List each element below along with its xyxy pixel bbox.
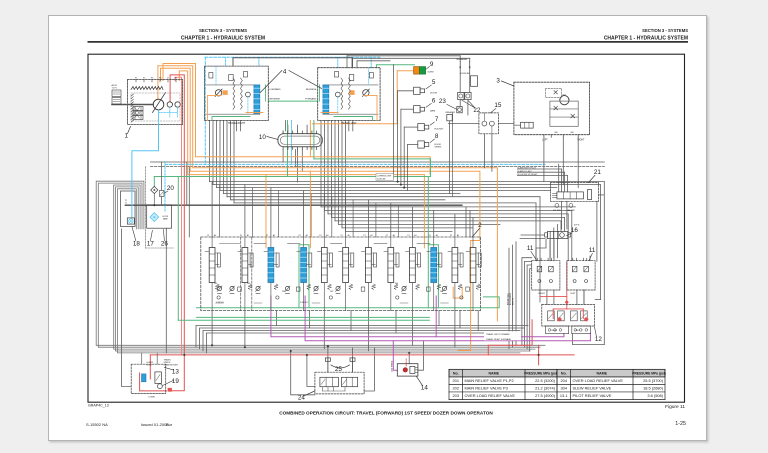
label 19 xyxy=(163,378,180,386)
svg-text:LEFT: LEFT xyxy=(571,293,577,295)
svg-text:P1: P1 xyxy=(341,235,343,237)
remote control valve 11 left xyxy=(532,258,560,295)
hose green tank line xyxy=(196,297,499,308)
svg-text:2-DEL/SE: 2-DEL/SE xyxy=(377,179,386,181)
svg-text:MAIN RELIEF VALVE P1,P2: MAIN RELIEF VALVE P1,P2 xyxy=(465,378,514,383)
svg-text:ARM: ARM xyxy=(430,110,435,113)
label 22 xyxy=(462,100,481,114)
svg-text:2-SPOOL: 2-SPOOL xyxy=(216,302,224,304)
travel motor left texts xyxy=(305,89,357,125)
hose green left riser xyxy=(177,177,179,321)
wire mid bus horizontal lines xyxy=(210,182,605,232)
valve bank port labels xyxy=(207,234,459,237)
header right xyxy=(604,28,688,41)
pilot unit 15 xyxy=(449,113,499,171)
hose red pilot bus xyxy=(150,354,574,356)
pressure table right xyxy=(557,369,665,399)
svg-text:19: 19 xyxy=(172,378,180,385)
valve bank sub components xyxy=(216,287,470,303)
svg-text:203: 203 xyxy=(330,291,333,293)
wire right risers xyxy=(573,182,605,345)
label 12 xyxy=(594,327,602,343)
valve bank relief valves xyxy=(217,286,446,293)
swivel joint 10 xyxy=(278,131,322,150)
wire drops motor boxes to bus xyxy=(210,121,346,232)
svg-text:205: 205 xyxy=(440,291,443,293)
svg-text:A1: A1 xyxy=(436,234,438,237)
breaker coupler 23 xyxy=(446,107,463,121)
valve bank tiny labels xyxy=(214,283,443,304)
svg-text:SECTION 3 - SYSTEMS: SECTION 3 - SYSTEMS xyxy=(199,28,247,33)
label 2 xyxy=(472,222,482,237)
coupler 7 bucket xyxy=(404,124,444,131)
footer page number xyxy=(675,421,686,427)
svg-text:P1: P1 xyxy=(429,235,431,237)
svg-text:2: 2 xyxy=(478,222,482,229)
wire drops bus to valve bank xyxy=(212,182,473,237)
hose purple travel pilot 1 xyxy=(271,296,564,337)
svg-text:FORWARD: FORWARD xyxy=(270,88,282,91)
label 11 left xyxy=(527,245,537,261)
hose green swivel drops xyxy=(288,121,314,177)
quick couplers 22 xyxy=(458,92,471,99)
hose orange pump P3 line xyxy=(179,71,424,248)
label 4 xyxy=(260,69,321,93)
label 25 xyxy=(335,366,343,373)
graphic id xyxy=(88,404,109,408)
hose green pilot return bus xyxy=(154,177,429,187)
label 20 xyxy=(164,185,175,194)
travel motor left 4 xyxy=(318,68,380,121)
hose purple branch xyxy=(393,296,436,370)
svg-text:P2: P2 xyxy=(143,78,145,80)
wire bank return band xyxy=(196,296,528,353)
svg-text:1: 1 xyxy=(125,133,129,140)
wire swivel joint links xyxy=(237,121,353,183)
valve bank spools xyxy=(205,237,481,311)
caption xyxy=(279,411,493,416)
svg-text:6: 6 xyxy=(432,97,436,104)
pressure table left xyxy=(449,369,557,399)
svg-text:P1: P1 xyxy=(450,235,452,237)
hose cyan drain line xyxy=(132,125,159,218)
hose green bottom bus xyxy=(178,319,429,321)
svg-text:Figure 11: Figure 11 xyxy=(665,404,685,410)
wire pilot unit links xyxy=(122,353,158,387)
svg-text:TRAVEL RIGHT FORWARD: TRAVEL RIGHT FORWARD xyxy=(486,338,512,341)
figure label xyxy=(665,404,685,410)
hose orange travel bus xyxy=(163,64,430,175)
label 17 xyxy=(147,230,155,247)
svg-text:LOCK: LOCK xyxy=(147,364,153,366)
svg-text:FORWARD: FORWARD xyxy=(305,98,317,101)
pedal symbols 25 xyxy=(325,358,355,372)
label 15 xyxy=(490,102,502,113)
svg-text:NAME: NAME xyxy=(596,371,607,375)
svg-text:9: 9 xyxy=(430,61,434,68)
svg-text:11: 11 xyxy=(527,245,534,252)
svg-text:A1: A1 xyxy=(175,77,177,80)
hose orange pump P2 line xyxy=(161,68,480,350)
svg-text:T1: T1 xyxy=(125,202,128,204)
label 13 xyxy=(164,367,179,375)
svg-text:2-SPEED/CONF: 2-SPEED/CONF xyxy=(377,176,392,178)
svg-text:8: 8 xyxy=(435,133,439,140)
svg-text:2ND SPD: 2ND SPD xyxy=(567,210,576,212)
travel pilot 12 red internals xyxy=(553,301,588,321)
svg-text:A1: A1 xyxy=(348,234,350,237)
svg-text:P1: P1 xyxy=(240,235,242,237)
svg-text:P1: P1 xyxy=(207,235,209,237)
label 23 xyxy=(439,98,457,109)
label 10 xyxy=(259,134,278,141)
slew unit texts xyxy=(542,95,585,142)
wire slew unit drops xyxy=(498,124,578,188)
breaker arrows top xyxy=(457,58,478,86)
solenoid block 21 xyxy=(550,183,598,212)
svg-text:12: 12 xyxy=(595,336,603,343)
svg-text:25.5 (3700): 25.5 (3700) xyxy=(643,378,664,383)
svg-text:LEFT: LEFT xyxy=(542,140,548,142)
svg-text:203: 203 xyxy=(247,283,250,285)
travel pilot texts xyxy=(552,330,581,332)
svg-text:P1: P1 xyxy=(266,235,268,237)
speed change valve 14 xyxy=(392,359,418,376)
svg-text:T1 P1: T1 P1 xyxy=(112,88,118,90)
svg-text:A1: A1 xyxy=(414,234,416,237)
label 16 xyxy=(566,227,578,236)
svg-text:P1: P1 xyxy=(363,235,365,237)
pump 1 internals xyxy=(112,80,180,123)
svg-text:DOWN: DOWN xyxy=(149,396,156,398)
label 8 xyxy=(430,133,439,143)
solenoid labels xyxy=(517,168,538,176)
svg-text:CHAPTER 1 - HYDRAULIC SYSTEM: CHAPTER 1 - HYDRAULIC SYSTEM xyxy=(181,36,265,42)
hose red lever lock branch xyxy=(140,355,167,391)
return filter 17 xyxy=(147,205,172,228)
svg-text:SLEW DL LEFT: SLEW DL LEFT xyxy=(517,171,532,173)
svg-text:A1: A1 xyxy=(306,234,308,237)
hose red pump line 1 xyxy=(170,75,185,391)
svg-text:27.5 (4000): 27.5 (4000) xyxy=(535,393,556,398)
svg-text:BOOM SW UP RIGHT: BOOM SW UP RIGHT xyxy=(517,174,538,176)
svg-text:4: 4 xyxy=(283,69,287,76)
svg-text:OVER LOAD RELIEF VALVE: OVER LOAD RELIEF VALVE xyxy=(465,393,516,398)
svg-text:OVER LOAD RELIEF VALVE: OVER LOAD RELIEF VALVE xyxy=(573,378,624,383)
coupler 6 arm xyxy=(401,106,435,113)
svg-text:TANK: TANK xyxy=(163,218,169,221)
label 6 xyxy=(426,97,436,107)
wire gray dashed pilot bus xyxy=(151,166,605,168)
svg-text:BREAKER: BREAKER xyxy=(457,58,468,61)
svg-text:REVERSE: REVERSE xyxy=(270,99,281,101)
pump 1 left port texts xyxy=(112,84,118,90)
svg-text:SECTION 3 - SYSTEMS: SECTION 3 - SYSTEMS xyxy=(642,28,688,33)
travel motor right 4 xyxy=(205,66,269,120)
svg-text:No.: No. xyxy=(561,371,567,375)
hose green motor link xyxy=(268,100,317,102)
svg-text:300: 300 xyxy=(554,132,558,134)
wire top pilot bundle xyxy=(347,56,470,68)
header left xyxy=(181,28,265,41)
svg-text:A1: A1 xyxy=(370,234,372,237)
hose orange valve feeds xyxy=(266,171,462,298)
svg-text:COMBINED OPERATION CIRCUIT: TR: COMBINED OPERATION CIRCUIT: TRAVEL (FORW… xyxy=(279,411,493,416)
svg-text:18: 18 xyxy=(133,240,141,247)
junction dots xyxy=(153,181,539,356)
svg-text:PILOT RELIEF VALVE: PILOT RELIEF VALVE xyxy=(573,393,612,398)
svg-text:3: 3 xyxy=(496,78,500,85)
travel motor left hoses xyxy=(320,85,378,121)
svg-text:17: 17 xyxy=(147,240,155,247)
svg-text:A1: A1 xyxy=(393,234,395,237)
svg-text:204: 204 xyxy=(561,378,568,383)
svg-text:RIGHT: RIGHT xyxy=(552,330,558,332)
svg-text:18.5 (2680): 18.5 (2680) xyxy=(643,386,664,391)
label 24 xyxy=(298,391,315,402)
suction strainer 18 xyxy=(127,218,134,224)
hose cyan dashed top bus xyxy=(205,57,380,164)
breather 20 xyxy=(125,162,165,205)
svg-text:TRAVEL RIGHT: TRAVEL RIGHT xyxy=(228,122,246,125)
svg-text:22.5 (3200): 22.5 (3200) xyxy=(535,378,556,383)
label 18 xyxy=(132,226,141,247)
hose purple travel pilot 2 xyxy=(305,296,590,341)
svg-text:P1: P1 xyxy=(135,78,137,80)
svg-text:P3: P3 xyxy=(151,78,153,80)
svg-text:11: 11 xyxy=(589,247,596,254)
rotated pilot labels xyxy=(508,292,515,305)
svg-text:21.2 (3074): 21.2 (3074) xyxy=(535,386,556,391)
pump 1 cyan pilot internals xyxy=(159,107,178,125)
svg-text:304: 304 xyxy=(561,386,568,391)
pedal valve 24 box xyxy=(315,372,364,394)
wire motor crossover xyxy=(233,58,353,68)
midfield tiny labels xyxy=(376,174,394,181)
svg-text:SLEW: SLEW xyxy=(427,72,434,74)
svg-text:SLEW RELIEF VALVE: SLEW RELIEF VALVE xyxy=(573,386,612,391)
wire coupler risers xyxy=(394,65,415,191)
svg-text:1-25: 1-25 xyxy=(675,421,686,427)
wire quick coupler links xyxy=(450,69,470,197)
svg-text:13: 13 xyxy=(172,368,180,375)
wire drops valve bank to return bus xyxy=(122,229,455,395)
svg-text:MAIN RELIEF VALVE P3: MAIN RELIEF VALVE P3 xyxy=(465,386,508,391)
shuttle valve 16 xyxy=(521,224,580,238)
svg-text:No.: No. xyxy=(453,371,459,375)
svg-text:RIGHT: RIGHT xyxy=(538,293,545,295)
pump assembly 1 box xyxy=(128,80,183,125)
pump 1 port labels xyxy=(135,77,177,80)
svg-text:2-SPOOL: 2-SPOOL xyxy=(300,302,308,304)
hose cyan swivel drop xyxy=(291,121,293,165)
svg-text:CHAPTER 1 - HYDRAULIC SYSTEM: CHAPTER 1 - HYDRAULIC SYSTEM xyxy=(604,36,688,42)
svg-text:CHANGEOVER: CHANGEOVER xyxy=(164,363,179,366)
remote control valve 11 right xyxy=(567,258,595,295)
wire return bus and tank riser nest xyxy=(96,181,545,353)
footer book code xyxy=(86,422,108,427)
wire right zone mesh xyxy=(466,197,590,349)
svg-text:A1: A1 xyxy=(273,234,275,237)
label 7 xyxy=(430,116,439,125)
svg-text:202: 202 xyxy=(453,386,460,391)
slew motor unit 3 xyxy=(514,82,590,137)
svg-text:203: 203 xyxy=(453,393,460,398)
travel pilot valve 12 xyxy=(542,304,595,333)
wire drops bus to valve bank pilots xyxy=(220,185,399,237)
schematic frame xyxy=(88,54,685,402)
svg-text:203: 203 xyxy=(214,283,217,285)
wire gray return rail xyxy=(151,161,605,163)
svg-text:BREAKER: BREAKER xyxy=(446,111,456,114)
svg-text:Bur: Bur xyxy=(166,422,173,427)
hose green slew line xyxy=(376,65,414,68)
svg-text:A2 B1: A2 B1 xyxy=(112,84,118,87)
svg-text:P1: P1 xyxy=(407,235,409,237)
hydraulic tank box xyxy=(121,191,136,227)
label 11 right xyxy=(589,247,596,261)
footer issued xyxy=(141,422,173,427)
main control valve boundary xyxy=(201,237,481,311)
svg-text:S-15502 NA: S-15502 NA xyxy=(86,422,108,427)
svg-text:7: 7 xyxy=(435,116,439,123)
coupler 5 boom xyxy=(398,87,438,94)
svg-text:PRESSURE MPa (psi): PRESSURE MPa (psi) xyxy=(524,371,558,375)
svg-text:13-1: 13-1 xyxy=(560,393,568,398)
label 3 xyxy=(496,78,514,87)
svg-text:15: 15 xyxy=(494,102,502,109)
tank unit dashed boundary xyxy=(146,167,174,249)
hose cyan dashed mid bus xyxy=(165,161,545,212)
svg-text:P1: P1 xyxy=(386,235,388,237)
pilot supply unit 13 xyxy=(131,359,178,399)
svg-text:BUCKET: BUCKET xyxy=(435,129,445,131)
header rule xyxy=(88,41,689,42)
svg-text:P1: P1 xyxy=(319,235,321,237)
label 21 xyxy=(588,169,601,183)
svg-text:ARM IN: ARM IN xyxy=(511,298,514,305)
hose red pump line 2 xyxy=(175,77,182,355)
svg-text:Dr: Dr xyxy=(167,78,169,80)
label 26 xyxy=(161,229,169,247)
hose orange pump P1 line xyxy=(158,66,498,321)
label 14 xyxy=(416,376,428,391)
svg-text:21: 21 xyxy=(594,169,602,176)
svg-text:PRESSURE MPa (psi): PRESSURE MPa (psi) xyxy=(632,371,666,375)
svg-text:TRAVEL LEFT: TRAVEL LEFT xyxy=(341,122,357,125)
svg-text:23: 23 xyxy=(439,98,447,105)
label 5 xyxy=(426,79,436,89)
travel motor right hoses xyxy=(208,85,266,121)
hose orange slew supply xyxy=(310,71,413,157)
valve bank relief arrows xyxy=(217,286,447,292)
wire suction line xyxy=(125,204,462,206)
hose red travel pilot right xyxy=(488,320,538,365)
svg-text:204: 204 xyxy=(395,283,398,285)
svg-text:10: 10 xyxy=(259,134,267,141)
svg-text:NAME: NAME xyxy=(488,371,499,375)
wire staircase to pilot valves xyxy=(517,164,604,351)
svg-text:BOOM: BOOM xyxy=(430,92,437,94)
label 9 xyxy=(426,61,434,69)
coupler 9 slew xyxy=(414,67,435,75)
svg-text:SWING: SWING xyxy=(435,147,442,149)
svg-text:P1: P1 xyxy=(299,235,301,237)
coupler 8 boom swing xyxy=(408,141,442,149)
svg-text:201: 201 xyxy=(453,378,460,383)
svg-text:A1: A1 xyxy=(326,234,328,237)
label 1 xyxy=(125,127,131,140)
svg-text:A1: A1 xyxy=(247,234,249,237)
svg-text:GRAP4C_13: GRAP4C_13 xyxy=(88,404,109,408)
svg-text:LOW SPEED: LOW SPEED xyxy=(392,360,394,372)
svg-text:SLEW RIGHT PILOT: SLEW RIGHT PILOT xyxy=(517,168,537,170)
travel motor right texts xyxy=(228,88,281,125)
svg-text:1ST SPD: 1ST SPD xyxy=(553,210,561,212)
svg-text:300: 300 xyxy=(570,132,574,134)
pilot line labels xyxy=(484,331,521,341)
svg-text:AUX/SLEW: AUX/SLEW xyxy=(460,72,470,75)
svg-text:A1: A1 xyxy=(214,234,216,237)
svg-text:204: 204 xyxy=(282,291,285,293)
wire left staircase verticals xyxy=(187,162,190,237)
svg-text:5: 5 xyxy=(432,79,436,86)
svg-text:A1: A1 xyxy=(457,234,459,237)
svg-text:3.6 (508): 3.6 (508) xyxy=(647,393,663,398)
svg-text:26: 26 xyxy=(161,240,169,247)
hose red speed select xyxy=(540,262,567,309)
svg-text:REVERSE: REVERSE xyxy=(306,89,317,91)
hose green teal verticals xyxy=(196,159,438,318)
svg-text:TRAVEL LEFT FORWARD: TRAVEL LEFT FORWARD xyxy=(486,333,510,336)
svg-text:25: 25 xyxy=(335,366,343,373)
